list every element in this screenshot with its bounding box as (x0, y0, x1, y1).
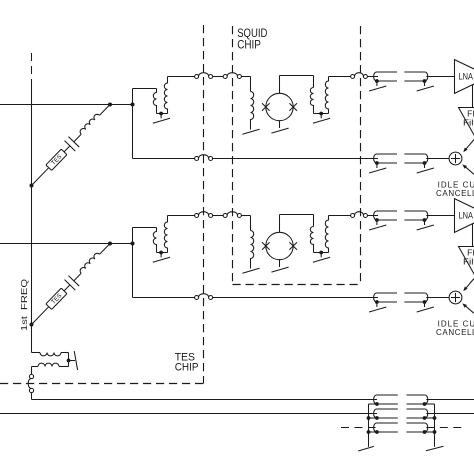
wire R3 left module 1 (133, 158, 195, 160)
summing junction module 2 (449, 291, 462, 304)
node L1-L2 junction module 1 (159, 112, 163, 116)
bond pad pair TES-chip edge R1 module 2 (195, 214, 199, 218)
wire output line A (32, 399, 378, 401)
wire input line module 1 (0, 104, 133, 106)
svg-text:CANCELLATION: CANCELLATION (436, 189, 474, 198)
shield stub to ground bus near row 1 (369, 403, 377, 405)
slash termination below L3 module 2 (242, 268, 259, 273)
node ground bus far row3 (433, 430, 437, 434)
SQUID loop module 2 (266, 232, 293, 259)
wire R1 between chips module 2 (213, 215, 224, 217)
wire R1 L5 to bond pads module 1 (329, 76, 351, 78)
ground slash near column (358, 446, 374, 451)
switch stub (69, 360, 76, 362)
switch slash (74, 351, 77, 370)
inductor L3 SQUID bias coil module 1 (251, 92, 254, 130)
wire rail to transformer primary (32, 352, 41, 354)
svg-text:Filter: Filter (463, 117, 474, 127)
node shield row 3 near (375, 430, 379, 434)
svg-text:1st FREQ: 1st FREQ (19, 279, 29, 331)
dashed continuation line right (more channels) (426, 427, 466, 429)
wire output line B (0, 413, 377, 415)
node input tee module 2 (108, 242, 112, 246)
TES series LCR branch module 1 (inductor, capacitor, resistor TES) (26, 99, 115, 190)
wire R3 middle module 1 (213, 158, 378, 160)
stub below L4-L5 junction module 1 (320, 114, 322, 119)
transformer secondary coil (38, 363, 59, 366)
bond pad pair TES-chip edge R1 module 1 (195, 75, 199, 79)
shield stub to ground bus near row 2 (369, 417, 377, 419)
op-amp LNA module 1 (455, 60, 474, 94)
wire room-temperature line row 1 (426, 399, 474, 401)
node shield row 2 near (375, 416, 379, 420)
TES chip boundary right edge (dashed) (203, 25, 205, 384)
wire module top horizontal module 1 (133, 88, 157, 90)
node shield row 1 far (423, 402, 427, 406)
node input tee module 1 (108, 103, 112, 107)
wire coax to LNA module 1 (426, 76, 454, 78)
inductor L4 (SQUID output primary) module 2 (310, 227, 313, 253)
node rail junction module 1 (30, 184, 34, 188)
svg-text:CHIP: CHIP (237, 38, 261, 52)
shield stub to ground bus far row 3 (425, 431, 435, 433)
node L4-L5 junction module 1 (319, 112, 323, 116)
arrow filter to summing node module 2 (464, 279, 474, 291)
inductor L3 SQUID bias coil module 2 (251, 231, 254, 269)
TES chip boundary bottom edge (dashed) (0, 383, 204, 385)
wire R1 to coax module 2 (367, 215, 378, 217)
wire R1 to bias coil module 2 (241, 215, 250, 217)
svg-text:LNA: LNA (459, 72, 474, 83)
Josephson junction X left module 1 (262, 103, 270, 111)
wire L4-L5 bottom link module 1 (314, 113, 329, 115)
wire coax to LNA module 2 (426, 215, 454, 217)
transformer primary coil (40, 353, 61, 356)
coax cable near end R3 module 2 (377, 292, 398, 294)
stub below L1-L2 junction module 2 (160, 253, 162, 258)
wire R1 L5 to bond pads module 2 (329, 215, 351, 217)
wire R1 to bias coil module 1 (241, 76, 250, 78)
wire pad to output line A (31, 393, 33, 400)
inductor L1 (TES-side primary) module 2 (153, 228, 156, 253)
coax cable far end R3 module 1 (404, 153, 425, 155)
bond pad pair SQUID-chip right edge R1 module 2 (351, 214, 355, 218)
stub below SQUID module 2 (279, 260, 281, 267)
coax cable near end R1 module 1 (377, 71, 398, 73)
wire coax to summing node module 2 (426, 297, 449, 299)
bond pad pair TES-chip edge R3 module 2 (195, 296, 199, 300)
slash termination below L3 module 1 (242, 129, 259, 134)
summing junction module 1 (449, 152, 462, 165)
coax cable near end R1 module 2 (377, 210, 398, 212)
wire primary to junction (61, 352, 69, 354)
bond pad pair SQUID-chip edge R1 module 2 (223, 214, 227, 218)
coax stack far end row 1 (407, 394, 425, 396)
svg-text:LNA: LNA (459, 211, 474, 222)
dashed continuation line left (more channels) (341, 427, 376, 429)
coax stack near end row 2 (377, 408, 398, 410)
wire room-temperature line row 2 (426, 413, 474, 415)
wire module-left vertical module 2 (132, 228, 134, 298)
node ground bus far row2 (433, 416, 437, 420)
wire SQUID top to L4 module 2 (279, 215, 281, 233)
stub below SQUID module 1 (279, 121, 281, 128)
wire LNA output to filter module 1 (472, 85, 474, 108)
wire module top horizontal module 2 (133, 227, 157, 229)
inductor L5 (output secondary) module 2 (325, 216, 328, 253)
wire coax to summing node module 1 (426, 158, 449, 160)
wire R3 middle module 2 (213, 297, 378, 299)
wire input line module 2 (0, 243, 133, 245)
svg-text:CANCELLATION: CANCELLATION (436, 328, 474, 337)
node shield row 3 far (423, 430, 427, 434)
SQUID chip boundary left edge (dashed) (232, 26, 234, 285)
node ground bus near row2 (367, 416, 371, 420)
wire L4-L5 bottom link module 2 (314, 252, 329, 254)
ground bus far column (434, 404, 436, 447)
node module-left junction module 1 (131, 103, 135, 107)
inductor L4 (SQUID output primary) module 1 (310, 88, 313, 114)
filter block module 2 (459, 247, 474, 281)
Josephson junction X right module 2 (289, 242, 297, 250)
node shield row 1 near (375, 402, 379, 406)
wire module-left vertical module 1 (132, 89, 134, 159)
slash termination L4-L5 module 1 (313, 118, 330, 123)
wire L1-L2 bottom link module 2 (157, 252, 168, 254)
wire L1-L2 bottom link module 1 (157, 113, 168, 115)
shield stub to ground bus far row 1 (425, 403, 435, 405)
slash termination below SQUID module 2 (271, 267, 288, 272)
Josephson junction X left module 2 (262, 242, 270, 250)
slash termination L4-L5 module 2 (313, 257, 330, 262)
svg-text:CHIP: CHIP (175, 362, 199, 374)
bias rail vertical wire (31, 86, 33, 353)
wire LNA output to filter module 2 (472, 224, 474, 247)
transformer secondary right link (68, 361, 70, 367)
node transformer junction (67, 359, 71, 363)
SQUID loop module 1 (266, 93, 293, 120)
TES series LCR branch module 2 (inductor, capacitor, resistor TES) (26, 238, 115, 329)
coax cable far end R1 module 1 (404, 71, 425, 73)
arrow filter to summing node module 1 (464, 140, 474, 152)
wire R1 from L2 to bond pads module 1 (168, 76, 195, 78)
node L4-L5 junction module 2 (319, 251, 323, 255)
node ground bus near row3 (367, 430, 371, 434)
node rail junction module 2 (30, 323, 34, 327)
coax stack far end row 3 (407, 422, 425, 424)
shield stub to ground bus far row 2 (425, 417, 435, 419)
node L1-L2 junction module 2 (159, 251, 163, 255)
slash termination L1-L2 module 2 (153, 257, 170, 262)
Josephson junction X right module 1 (289, 103, 297, 111)
wire R1 between chips module 1 (213, 76, 224, 78)
ground slash far column (426, 446, 444, 451)
bond pad pair SQUID-chip edge R1 module 1 (223, 75, 227, 79)
coax cable far end R3 module 2 (404, 292, 425, 294)
svg-text:TES: TES (50, 292, 63, 305)
slash termination below SQUID module 1 (271, 128, 288, 133)
bond pad pair vertical (TES chip bottom) (29, 374, 33, 378)
op-amp LNA module 2 (455, 199, 474, 233)
bond pad pair SQUID-chip right edge R1 module 1 (351, 75, 355, 79)
svg-text:TES: TES (50, 153, 63, 166)
stub below L1-L2 junction module 1 (160, 114, 162, 119)
SQUID chip boundary right edge (dashed) (360, 26, 362, 285)
coax cable far end R1 module 2 (404, 210, 425, 212)
coax stack near end row 1 (377, 394, 398, 396)
inductor L1 (TES-side primary) module 1 (153, 89, 156, 114)
wire SQUID top to L4 module 1 (279, 76, 281, 94)
bond pad pair TES-chip edge R3 module 1 (195, 157, 199, 161)
wire R1 from L2 to bond pads module 2 (168, 215, 195, 217)
arrow cancellation to summing node module 2 (464, 304, 474, 313)
filter block module 1 (459, 108, 474, 142)
coax stack near end row 3 (377, 422, 398, 424)
ground bus near column (368, 404, 370, 447)
SQUID chip boundary bottom edge (dashed) (233, 284, 361, 286)
shield stub to ground bus near row 3 (369, 431, 377, 433)
arrow cancellation to summing node module 1 (464, 165, 474, 174)
slash termination L1-L2 module 1 (153, 118, 170, 123)
node shield row 2 far (423, 416, 427, 420)
svg-text:Filter: Filter (463, 256, 474, 266)
inductor L2 (SQUID input secondary) module 1 (164, 77, 167, 114)
wire R3 left module 2 (133, 297, 195, 299)
stub below L4-L5 junction module 2 (320, 253, 322, 258)
inductor L5 (output secondary) module 1 (325, 77, 328, 114)
coax stack far end row 2 (407, 408, 425, 410)
node module-left junction module 2 (131, 242, 135, 246)
inductor L2 (SQUID input secondary) module 2 (164, 216, 167, 253)
wire secondary segments (59, 366, 69, 368)
bias rail dashed continuation (top) (31, 53, 33, 86)
wire R1 to coax module 1 (367, 76, 378, 78)
coax cable near end R3 module 1 (377, 153, 398, 155)
